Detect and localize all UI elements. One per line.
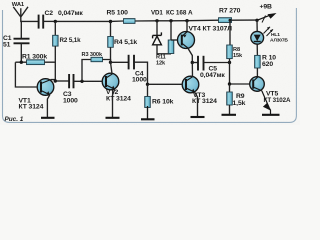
transistor VT5 [250,77,265,92]
node R11 junction [169,19,172,22]
zener VD1 [156,21,158,36]
LED arrows [264,27,274,36]
capacitor C3 [69,74,73,88]
transistor VT3 [182,76,199,93]
wire VT2 emitter to ground [113,89,115,118]
junction VT3 collector node [191,61,194,64]
wire C2 to node A [43,20,55,22]
resistor R11 [170,21,172,41]
ground VT5 [262,114,280,116]
wire VT3 emitter to ground [195,92,198,117]
node VT4 emitter junction [185,19,188,22]
wire R1 row [15,61,55,63]
capacitor C2 [39,15,44,29]
ground VT3 [191,116,205,118]
wire R8 column to base node [230,63,250,85]
capacitor C5 [198,56,204,71]
wire +9V node to LED [256,20,258,31]
transistor VT1 [37,79,54,96]
antenna WA1 [13,7,28,39]
resistor R5 [124,19,136,24]
wire C4 to R6 junction [134,62,148,84]
junction C5/R8 [228,61,231,64]
wire rail to R4 [110,22,112,37]
junction R3 base [80,80,83,83]
node VD1 junction [155,19,158,22]
ground VT1 [41,117,55,119]
wire antenna to C2 [21,20,38,22]
wire C3 to VT2 base [74,80,102,82]
transistor VT4 (PNP) [186,21,188,31]
node A junction [54,20,57,23]
resistor R10 [255,55,261,68]
junction VT1 collector node [54,79,57,82]
node +9V junction [255,19,258,22]
LED HL1 [251,31,264,44]
resistor R2 [53,35,59,46]
wire C5 to R8 column [204,62,230,64]
wire R4 to VT2 collector node [110,47,112,62]
wire R10 to VT5 [256,68,258,77]
junction C1/R1 [20,61,23,64]
wire base row to VT3 [148,83,182,85]
wire node A down to R2 [54,21,56,35]
wire VT1 emitter to ground [47,95,49,118]
resistor R6 [147,84,149,96]
wire VT3 collector node to C5 [192,62,197,64]
resistor R4 [108,37,114,48]
ground VT2 [106,117,120,119]
resistor R8 [229,19,232,22]
wire VT3 collector [191,63,193,77]
wire R3 to collector node VT2 [103,60,111,63]
wire C1 bottom [20,43,22,62]
wire VT2 collector node to C4 [111,61,129,63]
wire R2 to collector node [54,46,56,81]
transistor VT2 [102,73,119,90]
wire VT2 collector [111,62,113,74]
ground R6 [141,106,155,119]
resistor R9 [229,84,231,92]
top rail wire [55,20,257,21]
resistor R3 [91,57,103,61]
ground R9 [229,105,231,115]
wire LED to R10 [256,44,258,55]
scan noise overlay [0,0,1,1]
resistor R1 [27,60,45,65]
wire VT1 collector [51,80,56,81]
wire VT4 base to R11 [171,39,177,41]
+9V arrow [257,15,270,20]
wire collector node to C3 [55,80,69,82]
junction VT2 collector node [109,61,112,64]
junction R6 node [146,83,149,86]
border frame [3,8,297,122]
capacitor C1 [14,39,30,44]
capacitor C4 [129,55,134,70]
wire R3 left leg [82,60,91,82]
wire feedback column to VT1 base [15,62,36,87]
resistor R7 [219,18,232,23]
wire VT5 emitter arrow to ground [262,91,271,115]
wire VT4 collector down [188,48,193,63]
junction VT5 base node [228,82,231,85]
node R4 junction [109,20,112,23]
